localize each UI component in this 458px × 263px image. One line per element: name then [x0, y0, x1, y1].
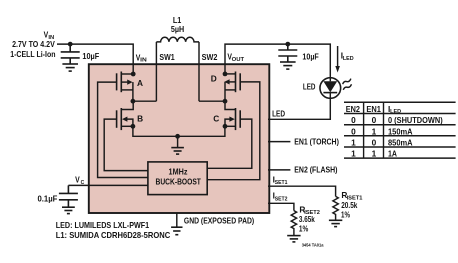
svg-text:850mA: 850mA	[388, 137, 413, 147]
svg-text:10µF: 10µF	[82, 51, 99, 61]
svg-text:D: D	[211, 73, 217, 83]
node D top dot	[223, 72, 228, 77]
svg-text:GND (EXPOSED PAD): GND (EXPOSED PAD)	[184, 216, 254, 226]
svg-text:0.1µF: 0.1µF	[38, 193, 58, 203]
svg-text:SET2: SET2	[275, 196, 288, 202]
node A top dot	[131, 72, 136, 77]
label RISET1	[341, 190, 363, 202]
label VOUT pin	[227, 52, 244, 64]
capacitor 10uF input	[61, 44, 80, 64]
label VIN pin	[136, 52, 147, 63]
svg-text:1A: 1A	[388, 148, 397, 158]
table row 1	[351, 115, 443, 125]
wire SW1 junction	[133, 100, 157, 102]
node VIN wire (battery to VIN pin)	[57, 44, 133, 74]
node C source dot	[223, 124, 228, 129]
svg-text:IN: IN	[140, 58, 147, 64]
node ground run dot	[175, 134, 180, 139]
table header ILED	[388, 104, 401, 115]
svg-text:1: 1	[372, 126, 377, 136]
ground internal	[171, 136, 184, 154]
capacitor 10uF output	[278, 44, 297, 62]
node VOUT junction dot	[285, 42, 290, 47]
node B source dot	[131, 124, 136, 129]
svg-text:C: C	[213, 113, 219, 123]
svg-text:1: 1	[372, 148, 377, 158]
transistor D PMOS	[224, 72, 240, 102]
wire A gate to buck-boost	[98, 82, 148, 177]
wire D gate to buck-boost	[207, 82, 260, 180]
svg-text:OUT: OUT	[232, 57, 245, 63]
LED D1 symbol	[320, 78, 341, 99]
ground 0.1uF cap	[62, 207, 75, 213]
wire SW1 riser	[155, 42, 157, 101]
svg-text:BUCK-BOOST: BUCK-BOOST	[156, 177, 201, 187]
svg-text:1: 1	[351, 148, 356, 158]
table row 4	[351, 148, 397, 158]
node SW2 junction dot	[223, 99, 228, 104]
svg-text:0 (SHUTDOWN): 0 (SHUTDOWN)	[388, 115, 443, 125]
ground exposed pad	[171, 227, 182, 235]
ground input cap	[62, 64, 78, 71]
svg-text:3.65k: 3.65k	[299, 214, 315, 224]
svg-text:10µF: 10µF	[302, 51, 318, 61]
wire B gate to buck-boost	[104, 119, 148, 171]
wire SW2 junction	[199, 100, 225, 102]
IC block LTC3454 body	[89, 64, 269, 213]
wire LED pin to LED cathode	[268, 98, 330, 119]
node SW1 junction dot	[131, 99, 136, 104]
wire B source to ground run	[133, 126, 225, 136]
ground RISET1	[329, 220, 342, 226]
label ISET1 pin	[273, 174, 288, 186]
svg-text:5µH: 5µH	[171, 24, 184, 34]
svg-text:L1: SUMIDA CDRH6D28-5RONC: L1: SUMIDA CDRH6D28-5RONC	[56, 230, 171, 240]
label ISET2 pin	[273, 190, 288, 202]
table row 3	[351, 137, 413, 147]
svg-text:0: 0	[372, 137, 377, 147]
transistor C NMOS	[225, 101, 240, 130]
wire EN2 stub	[268, 169, 290, 171]
svg-text:EN1 (TORCH): EN1 (TORCH)	[294, 136, 339, 146]
label VC	[75, 175, 85, 187]
resistor RISET1	[333, 196, 338, 220]
svg-text:SW2: SW2	[202, 52, 218, 62]
wire VC	[68, 184, 147, 186]
inductor L1	[156, 37, 199, 42]
wire EN1 stub	[268, 141, 290, 143]
current arrow ILED	[335, 46, 340, 73]
wire SW2 riser	[198, 42, 200, 101]
svg-text:2.7V TO 4.2V: 2.7V TO 4.2V	[12, 39, 55, 49]
svg-text:LED: LUMILEDS LXL-PWF1: LED: LUMILEDS LXL-PWF1	[56, 220, 150, 230]
svg-text:EN1: EN1	[366, 104, 381, 114]
ground output cap	[280, 62, 296, 69]
wire ISET1	[268, 186, 336, 196]
svg-text:V: V	[75, 175, 80, 185]
svg-text:A: A	[137, 78, 143, 88]
svg-text:1-CELL Li-Ion: 1-CELL Li-Ion	[10, 49, 55, 59]
light emission squiggles	[342, 79, 353, 90]
svg-text:3454 TA01a: 3454 TA01a	[302, 243, 324, 249]
svg-text:EN2 (FLASH): EN2 (FLASH)	[294, 164, 337, 174]
svg-text:1%: 1%	[299, 224, 309, 234]
svg-text:0: 0	[372, 115, 377, 125]
svg-text:150mA: 150mA	[388, 126, 413, 136]
transistor B NMOS	[117, 101, 134, 130]
ground RISET2	[287, 236, 300, 242]
svg-text:0: 0	[351, 126, 356, 136]
svg-text:LED: LED	[303, 82, 316, 92]
table EN truth table horizontal lines	[344, 102, 456, 158]
svg-text:LED: LED	[272, 108, 285, 118]
svg-text:1%: 1%	[341, 209, 350, 219]
node VIN junction dot	[68, 42, 73, 47]
svg-text:SET1: SET1	[275, 180, 288, 186]
svg-text:B: B	[137, 114, 143, 124]
buck-boost controller box	[148, 162, 207, 195]
wire ISET2	[268, 203, 294, 210]
svg-text:1MHz: 1MHz	[169, 167, 188, 177]
wire GND exposed pad	[176, 213, 178, 227]
label VIN node	[44, 30, 55, 42]
transistor A PMOS	[117, 72, 134, 102]
wire C gate to buck-boost	[207, 119, 252, 168]
table row 2	[351, 126, 413, 136]
label RISET2	[299, 204, 320, 216]
label ILED	[341, 50, 354, 62]
svg-text:SW1: SW1	[159, 52, 175, 62]
svg-text:EN2: EN2	[346, 104, 361, 114]
resistor RISET2	[291, 211, 296, 236]
svg-text:0: 0	[351, 115, 356, 125]
table vertical separators	[364, 102, 384, 158]
svg-text:LED: LED	[343, 56, 354, 62]
svg-text:1: 1	[351, 137, 356, 147]
capacitor 0.1uF	[59, 185, 78, 207]
wire VOUT net	[225, 44, 330, 78]
